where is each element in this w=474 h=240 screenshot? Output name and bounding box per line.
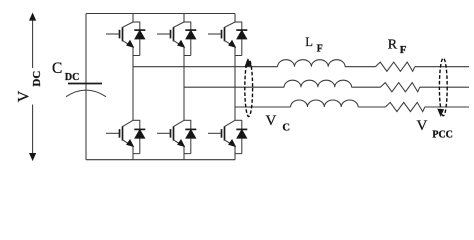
resistor R2 (R_F phase b) xyxy=(380,83,419,92)
svg-text:VPCC: VPCC xyxy=(417,118,453,141)
wire: emitter of Q3 and bottom jog xyxy=(184,47,191,56)
wire: DC bus left vertical xyxy=(85,14,87,160)
wire: emitter of Q5 and bottom jog xyxy=(235,47,242,56)
Vdc measurement arrow (double-headed) xyxy=(30,14,36,160)
resistor R3 (R_F phase c) xyxy=(385,102,424,111)
wire: stub from DC+ rail to cell Q5 xyxy=(234,14,236,23)
wire: phase a line (resistor to PCC) xyxy=(415,66,469,68)
svg-text:DC: DC xyxy=(31,71,43,87)
node V_PCC: point of common coupling voltage measurement loop xyxy=(438,58,447,116)
svg-text:RF: RF xyxy=(388,37,407,56)
transistor Q5 (IGBT) xyxy=(208,22,235,47)
wire: emitter of Q2 to DC- rail, bottom jog xyxy=(133,146,140,159)
wire: phase a line (inductor to resistor) xyxy=(345,66,375,68)
wire: phase b line (inductor to resistor) xyxy=(352,86,381,88)
wire: top jog of cell Q6 to diode D6 xyxy=(235,119,242,121)
wire: phase a line (inverter to filter inductor) xyxy=(133,66,278,68)
transistor Q1 (IGBT) xyxy=(106,22,133,47)
wire: top jog of cell Q4 to diode D4 xyxy=(184,119,191,121)
label V_DC (rotated) xyxy=(15,90,32,102)
wire: phase leg c vertical xyxy=(234,56,236,121)
diode D3 (antiparallel) xyxy=(185,22,196,56)
inductor L2 (L_F phase b) xyxy=(284,80,352,87)
node V_C: converter output voltage measurement loop xyxy=(245,59,253,116)
wire: top jog to diode D3 xyxy=(184,21,191,23)
wire: emitter of Q4 to DC- rail, bottom jog xyxy=(184,146,191,159)
transistor Q2 (IGBT) xyxy=(106,120,133,146)
wire: stub from DC+ rail to cell Q1 xyxy=(132,14,134,23)
svg-text:CDC: CDC xyxy=(52,60,79,83)
wire: phase b line (inverter to filter inductor) xyxy=(184,86,284,88)
wire: phase c line (inductor to resistor) xyxy=(358,106,385,108)
diode D5 (antiparallel) xyxy=(236,22,247,56)
wire: emitter of Q1 and bottom jog xyxy=(133,47,140,56)
wire: phase b line (resistor to PCC) xyxy=(420,86,469,88)
capacitor C_DC xyxy=(66,84,106,97)
resistor R1 (R_F phase a) xyxy=(375,62,414,71)
diode D6 (antiparallel) xyxy=(236,120,247,153)
wire: DC- bottom rail xyxy=(86,159,235,161)
transistor Q6 (IGBT) xyxy=(208,120,235,146)
inductor L1 (L_F phase a) xyxy=(278,60,346,67)
wire: DC+ top rail xyxy=(86,13,235,15)
wire: top jog to diode D5 xyxy=(235,21,242,23)
svg-text:V: V xyxy=(15,90,32,102)
inductor L3 (L_F phase c) xyxy=(291,100,359,107)
diode D2 (antiparallel) xyxy=(134,120,145,153)
wire: phase leg b vertical xyxy=(183,56,185,121)
wire: phase leg a vertical xyxy=(132,56,134,121)
wire: phase c line (inverter to filter inductor) xyxy=(235,106,291,108)
wire: stub from DC+ rail to cell Q3 xyxy=(183,14,185,23)
diode D4 (antiparallel) xyxy=(185,120,196,153)
wire: top jog of cell Q2 to diode D2 xyxy=(133,119,140,121)
diode D1 (antiparallel) xyxy=(134,22,145,56)
svg-text:LF: LF xyxy=(305,35,323,54)
wire: phase c line (resistor to PCC) xyxy=(425,106,469,108)
wire: emitter of Q6 to DC- rail, bottom jog xyxy=(235,146,242,159)
transistor Q3 (IGBT) xyxy=(157,22,184,47)
svg-text:VC: VC xyxy=(266,113,290,134)
wire: top jog to diode D1 xyxy=(133,21,140,23)
transistor Q4 (IGBT) xyxy=(157,120,184,146)
